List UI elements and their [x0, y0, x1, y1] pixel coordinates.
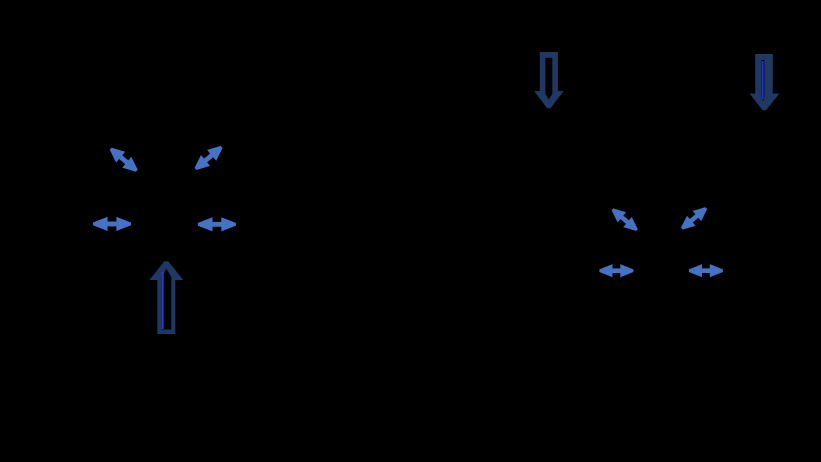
- inner blue sheen line of right down arrow: [762, 61, 764, 99]
- left cluster: NW-SE diagonal double arrow: [106, 143, 141, 176]
- left cluster: NE-SW diagonal double arrow: [191, 141, 226, 174]
- inner blue sheen line of up arrow: [162, 272, 164, 329]
- right cluster: NE-SW diagonal double arrow: [678, 203, 711, 234]
- right cluster: west horizontal double arrow: [599, 264, 633, 277]
- left cluster: east horizontal double arrow: [198, 217, 236, 231]
- right cluster: NW-SE diagonal double arrow: [608, 204, 641, 235]
- hollow down arrow (left of the two, top center-right): [534, 52, 564, 108]
- right cluster: east horizontal double arrow: [689, 264, 723, 277]
- big hollow up arrow below left cluster: [149, 261, 183, 334]
- left cluster: west horizontal double arrow: [93, 217, 131, 231]
- hollow down arrow (rightmost, top right): [750, 54, 780, 110]
